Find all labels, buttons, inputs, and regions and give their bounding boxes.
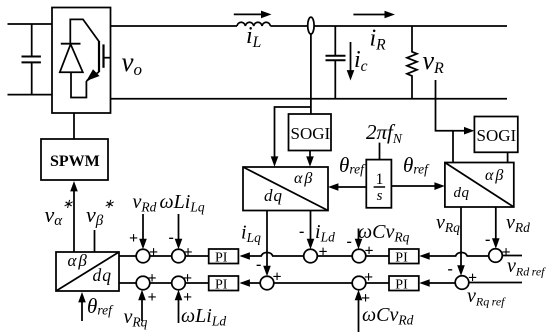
block: PI5 bbox=[389, 276, 419, 293]
svg-text:αβ: αβ bbox=[485, 167, 505, 184]
diode D1 bbox=[60, 44, 83, 72]
svg-text:+: + bbox=[364, 269, 373, 286]
wire: v-beta* stub bbox=[94, 230, 96, 252]
wire: B2 to PI2 bbox=[185, 282, 208, 284]
summing junction A3 bbox=[304, 249, 318, 263]
wire: node to SOGI input bbox=[310, 34, 312, 114]
wire: AC output bottom bbox=[111, 98, 508, 100]
svg-text:vRq: vRq bbox=[124, 306, 148, 330]
sign: plus right of A5 bbox=[502, 244, 511, 261]
svg-text:+: + bbox=[319, 244, 328, 261]
svg-text:vβ∗: vβ∗ bbox=[86, 196, 114, 229]
svg-text:αβ: αβ bbox=[68, 251, 89, 270]
wire: branch to abdq direct input bbox=[271, 107, 311, 167]
arrow: vRd feedforward into A1 bbox=[139, 214, 147, 249]
summing junction A2 bbox=[172, 249, 186, 263]
block: alpha-beta to dq transform (measurement, left) bbox=[243, 167, 328, 211]
svg-text:-: - bbox=[299, 223, 304, 240]
sign: plus right of A4 bbox=[365, 243, 374, 260]
svg-text:+: + bbox=[183, 270, 192, 287]
svg-text:2πfN: 2πfN bbox=[366, 120, 403, 146]
svg-text:1: 1 bbox=[376, 171, 384, 188]
svg-text:iR: iR bbox=[370, 26, 387, 54]
svg-text:+: + bbox=[502, 244, 511, 261]
svg-text:+: + bbox=[361, 290, 370, 307]
svg-text:ωLiLq: ωLiLq bbox=[160, 191, 205, 215]
svg-text:+: + bbox=[183, 289, 192, 306]
sign: minus at omega-L-iLq arrow bbox=[169, 229, 174, 246]
wire: B4 to PI5 bbox=[366, 282, 389, 284]
svg-text:PI: PI bbox=[395, 278, 408, 293]
svg-text:PI: PI bbox=[395, 251, 408, 266]
svg-text:vRq: vRq bbox=[436, 212, 460, 236]
block: SOGI right bbox=[474, 117, 517, 153]
svg-text:+: + bbox=[184, 244, 193, 261]
wire: A4 to PI4 bbox=[366, 255, 389, 257]
block: PI4 bbox=[389, 249, 419, 266]
block: dq to alpha-beta transform (inverse) bbox=[56, 251, 119, 291]
svg-text:vo: vo bbox=[122, 47, 142, 79]
svg-text:-: - bbox=[256, 256, 261, 273]
inductor L1 bbox=[237, 22, 270, 26]
label theta_ref (bottom left) bbox=[87, 294, 114, 318]
wire: vRd output down with arrow into A5 bbox=[492, 207, 500, 249]
label omega-L-iLq bbox=[160, 191, 205, 215]
svg-text:ωLiLd: ωLiLd bbox=[181, 305, 226, 329]
svg-text:θref: θref bbox=[339, 153, 366, 177]
svg-text:+: + bbox=[148, 289, 157, 306]
sign: minus at vRd arrow (A5) bbox=[485, 231, 490, 248]
svg-text:ωCvRq: ωCvRq bbox=[358, 221, 410, 245]
label 2pi-fN bbox=[366, 120, 403, 146]
summing junction A4 bbox=[352, 249, 366, 263]
sign: plus right of B4 bbox=[364, 269, 373, 286]
arrow: omega-L-iLq into A2 bbox=[175, 214, 183, 249]
label theta_ref (left of 1/s) bbox=[339, 153, 366, 177]
wire: vRqref stub bbox=[469, 282, 522, 284]
sign: plus right of A1 bbox=[149, 244, 158, 261]
sign: plus right of B3 bbox=[273, 269, 282, 286]
svg-text:θref: θref bbox=[87, 294, 114, 318]
summing junction B3 bbox=[260, 276, 274, 290]
svg-text:iL: iL bbox=[246, 23, 261, 51]
sign: plus at omega-C-vRd up arrow bbox=[361, 290, 370, 307]
node: output voltage sense (ellipse) bbox=[308, 17, 314, 34]
summing junction B1 bbox=[136, 276, 150, 290]
svg-text:iLq: iLq bbox=[241, 222, 261, 246]
wire+arrow: A3 to PI1 (hop over iLq) bbox=[240, 252, 304, 260]
svg-text:SOGI: SOGI bbox=[291, 124, 331, 143]
label vR bbox=[423, 46, 445, 77]
capacitor Cf (filter) bbox=[326, 26, 346, 98]
block: SPWM bbox=[41, 139, 108, 180]
summing junction B5 bbox=[455, 276, 469, 290]
wire: 2pi-fN into integrator bbox=[379, 143, 381, 160]
block: alpha-beta to dq transform (measurement, right) bbox=[445, 163, 514, 208]
svg-text:vRd ref: vRd ref bbox=[507, 255, 546, 279]
arrow: iR current bbox=[353, 11, 395, 19]
svg-text:vRd: vRd bbox=[506, 212, 530, 236]
arrow: vRq feedforward into B1 bbox=[138, 290, 146, 321]
wire: right SOGI output down bbox=[507, 152, 509, 162]
wire: A3 to A4 bbox=[317, 255, 352, 257]
wire+arrow: theta_ref into inverse block bbox=[78, 292, 86, 321]
wire: DC bus bottom bbox=[8, 94, 53, 96]
svg-text:vα∗: vα∗ bbox=[45, 196, 74, 229]
label v-alpha* bbox=[45, 196, 74, 229]
block: PI1 bbox=[209, 249, 239, 266]
sign: plus at vRq up arrow bbox=[148, 289, 157, 306]
label iR bbox=[370, 26, 387, 54]
svg-text:-: - bbox=[347, 233, 352, 250]
svg-text:PI: PI bbox=[215, 251, 228, 266]
label vRdref bbox=[507, 255, 546, 279]
svg-text:-: - bbox=[485, 231, 490, 248]
svg-text:ωCvRd: ωCvRd bbox=[362, 304, 414, 328]
wire: vRdref stub bbox=[502, 255, 522, 257]
summing junction B4 bbox=[352, 276, 366, 290]
sign: plus right of A2 bbox=[184, 244, 193, 261]
svg-text:+: + bbox=[468, 270, 477, 287]
block: PI2 bbox=[209, 276, 239, 293]
arrow: omega-C-vRd into B4 bbox=[355, 290, 363, 332]
label v-beta* bbox=[86, 196, 114, 229]
wire: inverter internal bottom bbox=[71, 72, 86, 97]
wire: vRq output down with arrow into B5 bbox=[457, 207, 465, 276]
sign: minus at vRq arrow (B5) bbox=[448, 261, 453, 278]
transistor Q1 (IGBT) bbox=[86, 41, 110, 81]
summing junction B2 bbox=[172, 276, 186, 290]
svg-text:dq: dq bbox=[264, 186, 283, 205]
svg-text:ic: ic bbox=[354, 47, 368, 75]
capacitor Cdc (DC link) bbox=[22, 24, 41, 95]
svg-text:+: + bbox=[273, 269, 282, 286]
svg-text:+: + bbox=[365, 243, 374, 260]
resistor R1 (load) bbox=[407, 26, 417, 98]
label vRq (below right block) bbox=[436, 212, 460, 236]
label iLq bbox=[241, 222, 261, 246]
arrow: iL current bbox=[234, 11, 272, 19]
label omega-L-iLd bbox=[181, 305, 226, 329]
summing junction A5 bbox=[489, 249, 503, 263]
svg-text:vRd: vRd bbox=[133, 191, 157, 215]
label minus iLd bbox=[299, 221, 335, 245]
label vRqref bbox=[467, 285, 506, 309]
arrow: omega-L-iLd into B2 bbox=[175, 290, 183, 323]
inverter bridge U1 (box) bbox=[52, 8, 111, 114]
svg-text:PI: PI bbox=[215, 278, 228, 293]
wire: SOGI left output bbox=[306, 151, 314, 167]
label omega-C-vRq bbox=[358, 221, 410, 245]
svg-text:-: - bbox=[169, 229, 174, 246]
wire+arrow: B3 to PI2 bbox=[240, 279, 261, 287]
sign: plus at vRd arrow bbox=[129, 230, 138, 247]
wire: AC output top bbox=[111, 25, 508, 27]
sign: plus right of B5 bbox=[468, 270, 477, 287]
label iL bbox=[246, 23, 261, 51]
arrow: ic current bbox=[347, 42, 355, 81]
svg-text:vR: vR bbox=[423, 46, 445, 77]
wire+arrow: theta to right dq block bbox=[391, 182, 444, 190]
svg-text:vRq ref: vRq ref bbox=[467, 285, 506, 309]
wire: A2 to PI1 bbox=[185, 255, 208, 257]
wire: B3 to B4 bbox=[274, 282, 352, 284]
wire+arrow: A5 to PI4 (hop over vRq) bbox=[419, 252, 489, 260]
label vRd (below right block) bbox=[506, 212, 530, 236]
wire: inverter internal top bbox=[70, 19, 99, 43]
sign: plus right of A3 bbox=[319, 244, 328, 261]
svg-text:αβ: αβ bbox=[294, 170, 314, 187]
wire: vR sense down and right to SOGI bbox=[436, 80, 475, 135]
wire: inverter gate drive bbox=[73, 113, 75, 139]
label omega-C-vRd bbox=[362, 304, 414, 328]
block: integrator 1/s bbox=[366, 160, 391, 208]
label ic bbox=[354, 47, 368, 75]
svg-text:s: s bbox=[377, 188, 383, 204]
wire+arrow: theta to left dq block bbox=[328, 183, 366, 191]
svg-text:dq: dq bbox=[93, 265, 113, 285]
svg-text:iLd: iLd bbox=[315, 221, 335, 245]
sign: plus right of B2 bbox=[183, 270, 192, 287]
svg-text:θref: θref bbox=[403, 153, 430, 177]
wire: junction down to right dq block bbox=[452, 131, 454, 163]
wire: row2 block to B1 bbox=[119, 282, 136, 284]
label vo bbox=[122, 47, 142, 79]
svg-text:-: - bbox=[448, 261, 453, 278]
label theta_ref (right of 1/s) bbox=[403, 153, 430, 177]
label vRq (feedforward) bbox=[124, 306, 148, 330]
sign: plus right of B1 bbox=[148, 270, 157, 287]
wire: row1 block to A1 bbox=[119, 255, 136, 257]
wire: A1 to A2 bbox=[150, 255, 172, 257]
sign: minus at omega-C-vRq arrow bbox=[347, 233, 352, 250]
wire+arrow: v-alpha* to SPWM bbox=[70, 181, 78, 252]
block: SOGI left bbox=[289, 114, 332, 151]
wire+arrow: B5 to PI5 bbox=[419, 279, 455, 287]
summing junction A1 bbox=[136, 249, 150, 263]
arrow: omega-C-vRq into A4 bbox=[355, 229, 363, 250]
wire: DC bus top bbox=[8, 23, 53, 25]
wire: iLq output down with arrow into B3 bbox=[263, 211, 271, 277]
sign: plus at omega-L-iLd up arrow bbox=[183, 289, 192, 306]
wire: B1 to B2 bbox=[150, 282, 172, 284]
wire: iLd output down with arrow into A3 bbox=[307, 211, 315, 250]
svg-text:SOGI: SOGI bbox=[477, 126, 517, 145]
label vRd (feedforward) bbox=[133, 191, 157, 215]
svg-text:+: + bbox=[129, 230, 138, 247]
svg-text:+: + bbox=[149, 244, 158, 261]
svg-text:+: + bbox=[148, 270, 157, 287]
sign: minus at iLq arrow bbox=[256, 256, 261, 273]
svg-text:SPWM: SPWM bbox=[50, 153, 100, 170]
svg-text:dq: dq bbox=[454, 185, 470, 201]
